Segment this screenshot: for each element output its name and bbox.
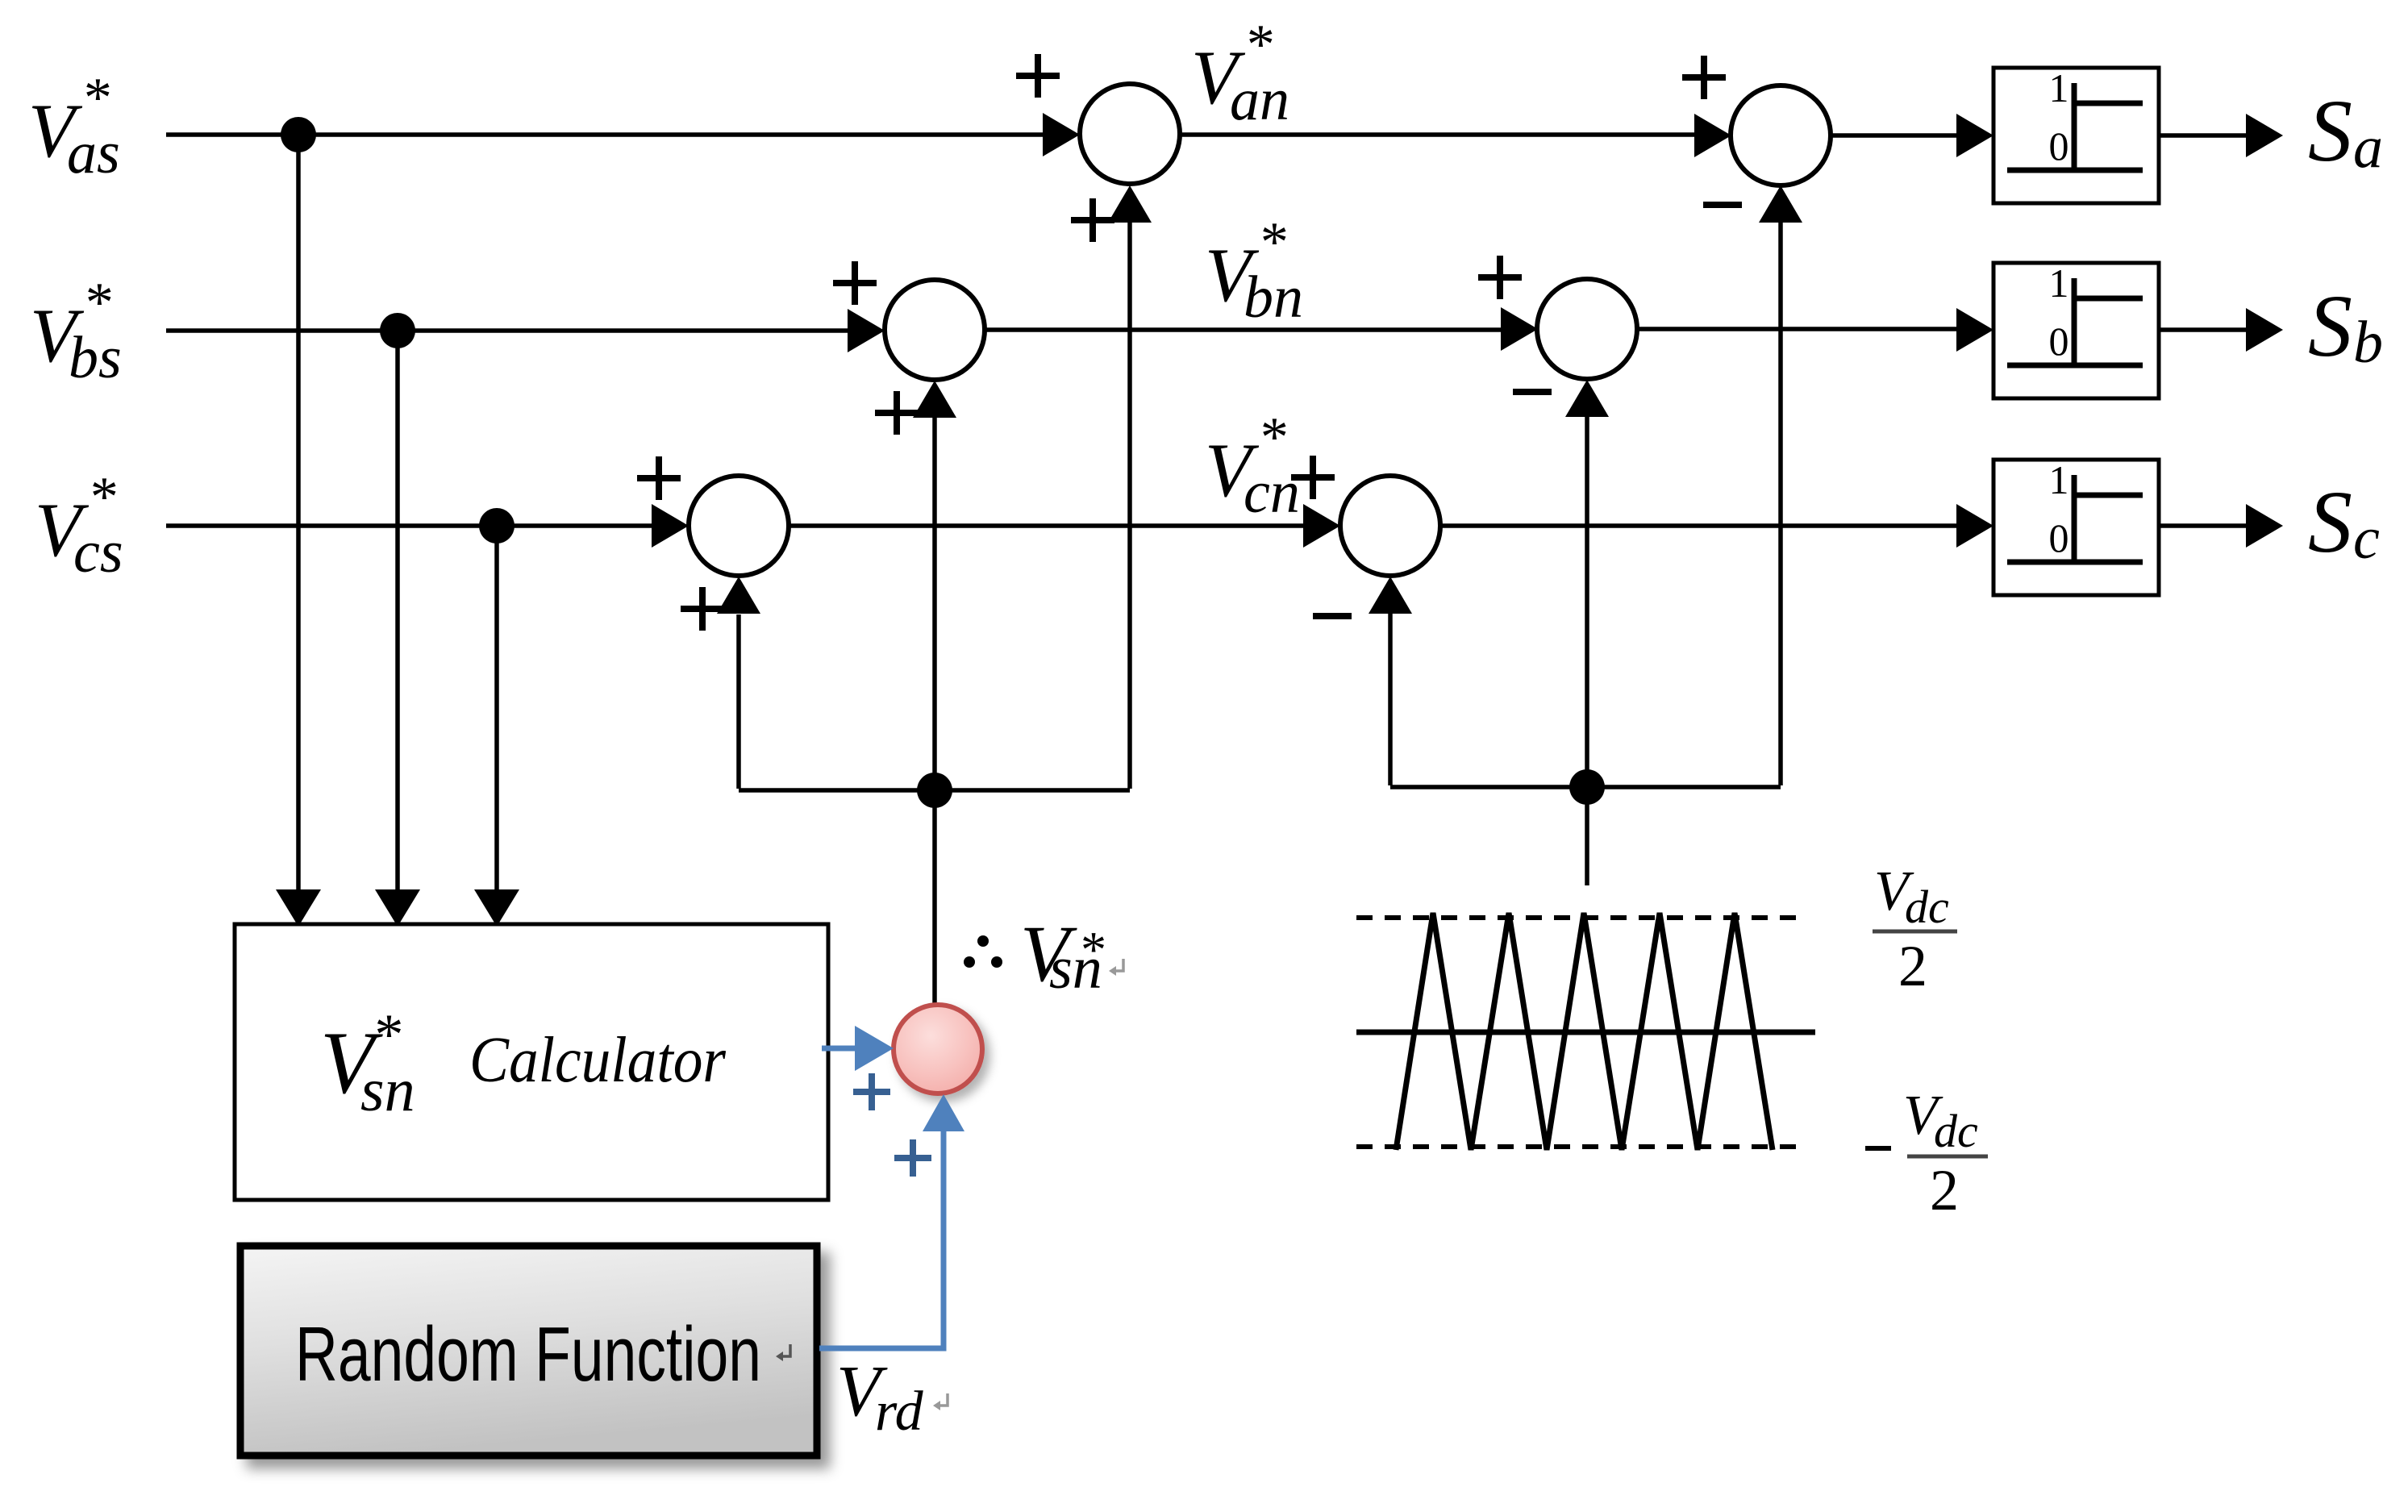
svg-text:1: 1	[2049, 457, 2069, 502]
svg-text:S: S	[2308, 81, 2352, 180]
svg-text:sn: sn	[360, 1056, 415, 1124]
svg-text:S: S	[2308, 277, 2352, 375]
svg-text:cs: cs	[73, 519, 123, 585]
svg-text:0: 0	[2049, 123, 2069, 169]
svg-text:sn: sn	[1049, 935, 1102, 1002]
svg-text:0: 0	[2049, 319, 2069, 364]
svg-text:dc: dc	[1934, 1105, 1978, 1157]
svg-text:bs: bs	[69, 325, 122, 391]
svg-text:b: b	[2353, 310, 2383, 376]
svg-text:a: a	[2353, 115, 2383, 181]
svg-text:c: c	[2353, 506, 2380, 572]
svg-text:Random Function: Random Function	[295, 1311, 761, 1397]
svg-text:rd: rd	[875, 1381, 924, 1443]
svg-text:Calculator: Calculator	[469, 1025, 727, 1096]
svg-text:as: as	[67, 120, 120, 186]
svg-text:bn: bn	[1244, 264, 1303, 331]
svg-text:dc: dc	[1905, 881, 1949, 933]
svg-text:cn: cn	[1244, 460, 1300, 526]
svg-text:2: 2	[1898, 934, 1927, 998]
svg-text:an: an	[1230, 67, 1289, 133]
svg-text:S: S	[2308, 473, 2352, 571]
svg-text:1: 1	[2049, 260, 2069, 306]
svg-text:0: 0	[2049, 515, 2069, 560]
svg-text:2: 2	[1930, 1158, 1959, 1223]
svg-text:1: 1	[2049, 65, 2069, 110]
